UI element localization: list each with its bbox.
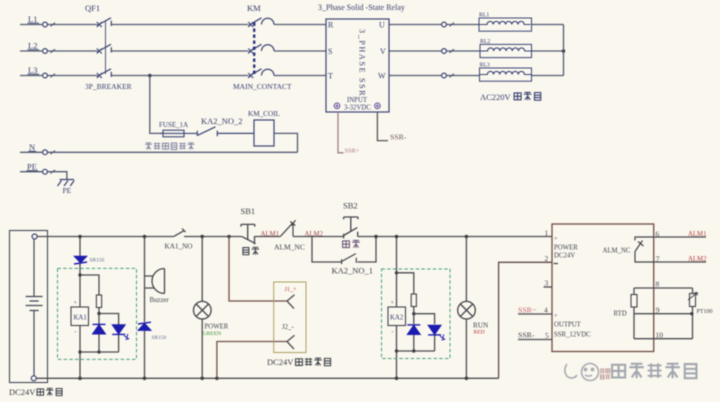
SSR module box: [326, 19, 389, 112]
svg-text:L3: L3: [28, 65, 37, 75]
svg-text:L2: L2: [28, 41, 37, 51]
label 停止: [243, 247, 259, 255]
wire bottom rail: [36, 377, 498, 379]
pushbutton SB2 start: [344, 217, 358, 238]
svg-text:N: N: [29, 142, 35, 152]
wire top rail ALM_NC to SB2: [293, 236, 343, 238]
breaker QF1 pole 3: [97, 69, 112, 78]
svg-text:RUN: RUN: [473, 322, 489, 330]
wire L3: [20, 75, 326, 77]
node dot botrail-KA2: [395, 377, 399, 381]
wire W SSR to heater RL3: [389, 75, 480, 77]
svg-text:ALM2: ALM2: [305, 231, 324, 238]
svg-text:ALM2: ALM2: [688, 256, 707, 263]
connector panel box: [274, 282, 306, 353]
svg-text:KA1_NO: KA1_NO: [165, 243, 193, 251]
svg-text:S: S: [328, 47, 332, 56]
node W terminal: [442, 73, 447, 78]
node heater tie junction: [562, 49, 566, 53]
svg-text:3_Phase Solid -State Relay: 3_Phase Solid -State Relay: [318, 3, 405, 12]
svg-text:POWER: POWER: [554, 245, 578, 252]
wire KA1 inner bottom: [80, 351, 119, 353]
watermark logo: [565, 364, 599, 381]
pin 7 wire ALM2: [654, 261, 706, 263]
wire top rail KA1_NO to SB1: [184, 236, 242, 238]
fuse FUSE_1A: [160, 130, 197, 137]
node dot KA2 top: [395, 271, 398, 274]
controller U1 box: [552, 224, 654, 352]
wire J2 minus: [217, 342, 287, 379]
svg-text:SB2: SB2: [343, 201, 358, 211]
switch KA2_NO_2: [197, 127, 254, 136]
svg-text:5: 5: [545, 331, 549, 340]
svg-text:T: T: [328, 72, 333, 81]
node dot KA1 top: [78, 273, 81, 276]
pin input plus circle: [375, 103, 381, 109]
breaker QF1 pole 1: [97, 18, 112, 78]
relay module KA2 dashed box: [382, 269, 451, 359]
node dot botrail-lamp: [200, 377, 204, 381]
svg-text:SR150: SR150: [90, 258, 105, 264]
contactor KM pole 1: [248, 18, 274, 78]
node dot KA2 bottom2: [412, 349, 415, 352]
coil KM_COIL: [254, 120, 274, 146]
pin 4 wire: [518, 313, 552, 315]
svg-text:3-32VDC: 3-32VDC: [344, 105, 371, 112]
wire controller pin2 return: [499, 262, 552, 378]
pin 5 wire: [518, 339, 552, 341]
node dot botrail-KA1: [78, 377, 82, 381]
svg-text:3: 3: [545, 278, 549, 287]
wire POWER lamp branch: [201, 237, 203, 379]
svg-text:KA1: KA1: [74, 315, 87, 322]
resistor RL2 heater: [480, 44, 532, 57]
battery cells: [26, 239, 43, 376]
svg-text:SSR+: SSR+: [345, 148, 360, 155]
svg-text:KA2_NO_2: KA2_NO_2: [201, 116, 243, 126]
wire KA2 LED branch: [414, 314, 435, 351]
node dot KA2 bottom1: [395, 349, 398, 352]
node N terminal: [43, 150, 48, 155]
contactor KM pole 3: [248, 69, 261, 78]
node dot rail-J1: [227, 235, 231, 239]
buzzer: [152, 269, 165, 294]
svg-text:RL1: RL1: [479, 13, 489, 19]
connector J2: [287, 335, 295, 349]
watermark seal text: [600, 368, 610, 379]
svg-text:AC220V: AC220V: [480, 92, 512, 102]
svg-text:L1: L1: [28, 14, 37, 24]
svg-text:8: 8: [656, 280, 660, 289]
node dot rail-lamp: [200, 235, 204, 239]
svg-text:SB1: SB1: [241, 206, 256, 216]
wire KA2 branch vertical: [396, 237, 398, 379]
svg-text:KA2: KA2: [390, 315, 404, 322]
coil KA1: [71, 307, 89, 326]
svg-text:J1_+: J1_+: [285, 286, 298, 293]
wire SB2 parallel branch: [312, 237, 376, 263]
svg-text:SSR~: SSR~: [518, 305, 536, 314]
svg-text:KM: KM: [247, 3, 261, 13]
node battery - terminal: [31, 376, 36, 381]
node L2 terminal: [43, 49, 48, 54]
svg-text:ALM_NC: ALM_NC: [603, 248, 631, 255]
breaker QF1 linkage bar: [105, 21, 107, 75]
diode SR150 second: [138, 322, 151, 330]
contactor KM linkage dashed: [253, 23, 255, 75]
LED KA1: [112, 325, 129, 340]
lamp POWER green: [194, 301, 212, 319]
node L1 terminal: [43, 22, 48, 27]
battery DC24V box: [10, 231, 48, 383]
wire SSR+ from input: [338, 112, 344, 153]
svg-text:RL2: RL2: [480, 39, 490, 45]
connector J1: [287, 295, 295, 309]
svg-text:DC24V: DC24V: [267, 357, 294, 367]
svg-text:U: U: [379, 21, 385, 30]
svg-text:DC24V: DC24V: [554, 253, 575, 260]
wire buzzer stubs: [145, 276, 154, 288]
watermark text 电子技术控: [612, 363, 696, 378]
wire U SSR to heater RL1: [389, 24, 479, 26]
resistor RL1 heater: [479, 18, 532, 31]
resistor RL3 heater: [480, 68, 532, 81]
svg-text:R: R: [328, 21, 334, 30]
node dot rail-SB2branch: [374, 235, 378, 239]
wire L2: [20, 50, 326, 52]
wire V SSR to heater RL2: [389, 50, 480, 52]
wire buzzer branch: [144, 237, 146, 379]
svg-text:V: V: [380, 47, 386, 56]
node dot rail-KA1: [78, 235, 82, 239]
node V terminal: [442, 49, 447, 54]
RTD leg: [633, 288, 635, 339]
svg-text:PE: PE: [63, 186, 72, 195]
wire KA1 resistor branch: [80, 275, 99, 352]
svg-text:+: +: [554, 313, 558, 320]
wire KA2 inner bottom: [397, 350, 435, 352]
node L3 tap junction: [148, 74, 152, 78]
svg-text:RTD: RTD: [614, 311, 627, 318]
svg-text:ALM_NC: ALM_NC: [274, 243, 305, 252]
svg-text:-: -: [75, 330, 77, 336]
svg-text:DC24V: DC24V: [9, 387, 36, 397]
node battery + terminal: [32, 234, 37, 239]
svg-text:ALM1: ALM1: [688, 231, 707, 238]
wire KA1 branch diode to coil: [79, 264, 81, 308]
node dot KA1 bottom1: [78, 350, 81, 353]
svg-text:MAIN_CONTACT: MAIN_CONTACT: [233, 82, 292, 91]
svg-text:9: 9: [656, 306, 660, 315]
pin 10 net: [634, 338, 693, 340]
node dot botrail-RUN: [465, 377, 469, 381]
wire L1 KM to SSR pin R: [274, 24, 326, 26]
svg-text:GREEN: GREEN: [203, 331, 222, 337]
svg-text:QF1: QF1: [85, 3, 100, 13]
resistor KA1: [96, 295, 101, 308]
breaker QF1 pole 2: [97, 44, 112, 53]
svg-text:OUTPUT: OUTPUT: [554, 322, 582, 329]
wire KA1 coil to bottom: [79, 326, 81, 379]
node dot rail-KA2: [395, 235, 399, 239]
wire top rail SB2 to controller pin 1: [358, 236, 552, 238]
svg-text:2: 2: [545, 254, 549, 263]
svg-text:6: 6: [656, 229, 660, 238]
wire L1 from label to breaker: [20, 24, 97, 26]
lamp RUN red: [458, 301, 476, 319]
node L3 terminal: [43, 73, 48, 78]
label 引线式保险丝: [145, 143, 194, 150]
wire PE: [20, 172, 67, 180]
wire KA2 resistor branch: [397, 273, 414, 351]
LED KA2: [428, 325, 445, 340]
diode KA2 plain: [407, 325, 420, 335]
wire KM coil to N: [274, 133, 298, 152]
svg-text:4: 4: [544, 305, 548, 314]
svg-text:FUSE_1A: FUSE_1A: [159, 121, 188, 129]
node dot pin9-PT100: [690, 312, 693, 315]
wire KA1 branch vertical upper: [79, 237, 81, 257]
resistor RTD: [631, 295, 637, 308]
node dot rail-RUN: [465, 235, 469, 239]
wire L3 tap to fuse: [150, 76, 163, 134]
wire RUN lamp branch: [465, 237, 467, 379]
svg-text:INPUT: INPUT: [347, 97, 368, 104]
ground PE symbol: [58, 180, 75, 187]
svg-text:3P_BREAKER: 3P_BREAKER: [85, 82, 132, 91]
svg-text:PE: PE: [27, 162, 37, 172]
pin 6 wire ALM1: [654, 236, 706, 238]
node dot botrail-J2: [215, 377, 219, 381]
wire heater outputs tie: [532, 25, 564, 76]
svg-text:PT100: PT100: [697, 309, 713, 315]
resistor KA2: [411, 294, 416, 307]
node U terminal: [442, 22, 447, 27]
svg-text:ALM1: ALM1: [261, 231, 280, 238]
svg-text:POWER: POWER: [205, 324, 229, 331]
node dot KA1 mid: [97, 312, 100, 315]
PT100 leg: [692, 288, 694, 339]
node dot rail-buzzer: [143, 235, 147, 239]
svg-text:SR150: SR150: [152, 335, 167, 341]
svg-text:SSR_12VDC: SSR_12VDC: [554, 332, 591, 339]
pin 8 net: [634, 287, 693, 289]
node dot KA1 bottom2: [97, 350, 100, 353]
thermistor PT100: [690, 294, 696, 307]
svg-text:KA2_NO_1: KA2_NO_1: [332, 266, 374, 276]
svg-text:10: 10: [656, 330, 664, 339]
svg-text:-: -: [392, 330, 394, 336]
switch ALM_NC mid: [281, 220, 296, 236]
switch KA1_NO: [174, 229, 186, 237]
svg-text:3_PHASE SSR: 3_PHASE SSR: [358, 29, 367, 97]
wire top rail segment battery to KA1_NO: [37, 236, 174, 238]
wire L1 breaker to KM: [112, 24, 249, 26]
svg-text:W: W: [378, 72, 386, 81]
pin 3 stub: [544, 286, 553, 288]
svg-text:SSR-: SSR-: [518, 330, 535, 339]
coil KA2: [388, 307, 406, 326]
contactor KM pole 2: [248, 44, 261, 53]
diode SR150 top (KA1 branch): [74, 256, 87, 264]
diode KA1 plain: [93, 324, 106, 334]
node dot botrail-buzzer: [143, 377, 147, 381]
svg-text:RED: RED: [474, 330, 485, 336]
node dot KA2 mid: [412, 312, 415, 315]
wire N rail: [20, 151, 298, 153]
node PE terminal: [43, 169, 48, 174]
pushbutton SB1 stop: [241, 224, 256, 244]
relay module KA1 dashed box: [58, 268, 137, 359]
wire SSR- from input: [377, 112, 388, 141]
svg-text:SSR-: SSR-: [390, 133, 407, 142]
wire top rail SB1 to ALM_NC: [255, 236, 281, 238]
svg-text:J2_-: J2_-: [282, 324, 294, 331]
wire J1 plus (dark red): [229, 237, 287, 302]
svg-text:1: 1: [545, 229, 549, 238]
pin 9 net: [634, 313, 693, 315]
switch ALM_NC internal: [635, 237, 654, 262]
svg-text:Buzzer: Buzzer: [150, 297, 170, 304]
switch KA2_NO_1: [342, 254, 357, 264]
wire KA1 LED branch: [99, 314, 119, 353]
svg-text:+: +: [554, 236, 558, 243]
label 启动: [343, 240, 360, 248]
svg-text:RL3: RL3: [480, 62, 490, 68]
terminal ticks: [51, 23, 455, 174]
svg-text:KM_COIL: KM_COIL: [248, 110, 280, 118]
svg-text:7: 7: [656, 254, 660, 263]
pin input minus circle: [334, 103, 380, 109]
